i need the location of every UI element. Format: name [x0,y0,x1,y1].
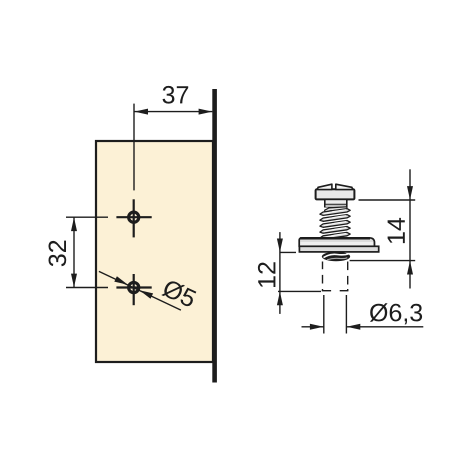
screw: thread coil 5 [320,232,350,239]
washer: bottom plate [299,246,378,252]
screw: thread coil 3 [320,221,350,228]
thread stub below washer [322,252,350,261]
washer: top slab [299,238,374,247]
dimension 32: top extension line [66,216,108,218]
label 12 (rotated) [258,262,276,287]
dimension 14: top arrow (pointing down) [407,186,413,200]
dimension 12: top arrow (pointing down) [277,239,283,253]
dowel hidden outline: bottom dashed line [322,290,349,292]
dimension Ø6,3: left arrow (pointing right) [310,324,324,330]
dimension 37: left arrow [134,109,148,115]
dimension 14: bottom extension line [350,260,416,262]
hole H1 (top): crosshair [116,199,151,237]
hole H2 (bottom): crosshair [116,274,151,305]
dimension 32: top arrow [71,217,77,231]
screw: slot right wedge [336,184,353,189]
dimension 37: right arrow [199,109,213,115]
dimension 12: bottom arrow (pointing up) [277,292,283,306]
screw: slot left wedge [317,184,332,189]
dimension 37: extension line (hole centerline) [133,104,135,191]
mounting plate (cream) [96,141,213,362]
dimension 37: dimension line [134,111,212,113]
dimension Ø5: upper-left arrow [114,276,128,285]
panel edge thick bar [212,89,217,383]
washer: top edge accent [300,237,370,239]
dimension 12: top extension line [280,251,296,253]
dimension 14: bottom arrow (pointing up) [407,261,413,275]
screw: thread coil 4 [320,227,350,234]
dimension 12: dimension line [279,232,281,314]
screw: neck shading band [326,205,346,207]
hole H1 (top): circle [129,212,139,222]
dimension Ø5: lower-right arrow [140,290,154,299]
screw: thread core [322,208,347,238]
dimension Ø6,3: dimension line [302,326,324,328]
screw: thread coil 1 [320,209,350,216]
label Ø5 (rotated) [161,278,197,308]
screw: neck mid line [325,203,347,205]
dowel hidden outline: left dashed line [322,262,324,291]
dimension 32: dimension line [73,217,75,287]
label 37 [163,86,189,104]
hole H2 (bottom): circle [129,282,139,292]
dimension Ø5: leader line [99,271,181,310]
screw: neck under head [325,199,347,207]
dimension 14: top extension line [359,199,416,201]
dimension Ø6,3: left extension line [323,295,325,334]
screw: head body [316,189,355,199]
dimension 32: bottom extension line [66,287,108,289]
washer: top slab highlight band [300,242,373,245]
screw: thread coil 2 [320,215,350,222]
dowel hidden outline: right dashed line [347,262,349,291]
label Ø6,3 [370,303,422,324]
dimension 32: bottom arrow [71,274,77,288]
dimension Ø6,3: right extension line [345,295,347,334]
dimension 12: bottom extension line [278,290,321,292]
screw: thread top partial coil [325,207,347,213]
label 14 (rotated) [388,218,405,243]
dimension Ø6,3: right arrow (pointing left) [347,324,361,330]
label 32 (rotated) [49,241,67,267]
dimension 14: dimension line [409,169,411,288]
